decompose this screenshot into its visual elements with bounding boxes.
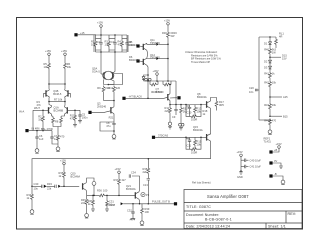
wire drop right to SOA — [114, 52, 116, 72]
power V3 +15V — [45, 49, 51, 62]
svg-text:R43: R43 — [264, 103, 269, 107]
node +15 stub pad — [74, 33, 77, 36]
svg-text:10k: 10k — [197, 110, 202, 114]
resistor R19 — [70, 110, 77, 127]
power V9 +15V decoupling — [237, 150, 243, 171]
svg-text:10k: 10k — [91, 43, 96, 47]
svg-text:0R5: 0R5 — [219, 103, 224, 107]
svg-text:R41: R41 — [264, 72, 269, 76]
junction — [118, 195, 120, 197]
ground — [91, 209, 95, 211]
svg-text:2N5246: 2N5246 — [97, 105, 107, 109]
trimmer P2 — [179, 123, 184, 130]
power V6 +15V — [60, 158, 66, 171]
svg-text:4k7: 4k7 — [122, 178, 127, 182]
ground — [112, 133, 116, 139]
svg-text:TITLE: G087C: TITLE: G087C — [186, 205, 211, 209]
svg-text:REV:: REV: — [288, 212, 297, 216]
resistor R11 — [165, 105, 172, 123]
transistor Q7 BD139 — [156, 84, 171, 105]
svg-text:C10: C10 — [187, 111, 192, 115]
resistor R46 — [88, 195, 95, 209]
transistor Q1B cascode — [44, 84, 50, 102]
ground — [237, 172, 243, 179]
transistor Q1 BC546 — [33, 102, 63, 117]
junction — [92, 195, 94, 197]
junction — [113, 100, 115, 102]
svg-text:IN 4R6: IN 4R6 — [32, 126, 41, 130]
svg-text:C2: C2 — [97, 40, 101, 44]
resistor R2B 1M — [38, 110, 44, 132]
border frame — [17, 18, 303, 230]
wire stub — [270, 115, 282, 117]
ground — [35, 147, 39, 153]
svg-text:R7 10k: R7 10k — [54, 98, 63, 102]
diode D2 — [264, 57, 272, 64]
resistor R5 — [44, 62, 51, 84]
junction — [106, 195, 108, 197]
node T3 label — [274, 172, 277, 176]
svg-text:C41 10uF: C41 10uF — [250, 165, 262, 169]
svg-text:BD243A: BD243A — [129, 58, 139, 62]
svg-text:470: 470 — [272, 119, 277, 123]
svg-text:D1: D1 — [264, 42, 268, 46]
ground — [268, 128, 272, 134]
power V8 — [115, 167, 121, 178]
svg-text:C32: C32 — [127, 208, 132, 212]
resistor R39 — [141, 204, 150, 220]
transistor Q3 2N5246 — [97, 101, 114, 122]
svg-text:Sansa Amplifier G087: Sansa Amplifier G087 — [207, 194, 249, 199]
svg-text:470: 470 — [60, 135, 65, 139]
resistor R44 — [264, 118, 276, 128]
resistor R6 — [64, 62, 72, 84]
capacitor C20 — [249, 86, 259, 94]
svg-text:10k: 10k — [272, 81, 277, 85]
pad PULSE_OUT — [174, 202, 177, 205]
node C15V label — [282, 53, 287, 60]
svg-text:22k: 22k — [47, 187, 52, 191]
pad input — [25, 129, 28, 132]
wire — [167, 44, 169, 58]
svg-text:220: 220 — [116, 86, 121, 90]
junction — [169, 104, 171, 106]
svg-text:+15V: +15V — [97, 21, 103, 25]
svg-text:100R: 100R — [191, 118, 197, 122]
wire Q20 emitter — [85, 190, 87, 195]
junction — [156, 80, 158, 82]
svg-text:100: 100 — [103, 189, 108, 193]
junction — [63, 186, 65, 188]
pad T3 — [269, 174, 272, 177]
node REF label — [264, 136, 272, 143]
svg-text:R10: R10 — [108, 86, 113, 90]
ground — [105, 209, 109, 211]
node PULSE_OUT label — [152, 200, 170, 204]
wire Q8 emitter to Q15 collector — [210, 108, 212, 134]
transistor Q8 BD243A — [197, 92, 211, 108]
svg-text:Ref (via Sheets): Ref (via Sheets) — [192, 181, 211, 185]
node OUT-L label — [283, 95, 288, 99]
capacitor C7 — [50, 131, 59, 144]
wire input rail — [29, 130, 52, 132]
svg-text:D2: D2 — [264, 60, 268, 64]
svg-text:370C/A5: 370C/A5 — [158, 133, 169, 137]
wire Q12 emitter down — [147, 65, 148, 98]
wire input riser — [32, 110, 34, 130]
svg-text:R36: R36 — [97, 189, 102, 193]
transistor Q15 BD243A — [193, 125, 211, 141]
junction — [167, 44, 169, 46]
resistor R12 — [180, 105, 189, 124]
transistor Q2B cascode — [65, 84, 71, 102]
svg-text:+15V: +15V — [61, 49, 67, 53]
svg-text:C13: C13 — [143, 183, 148, 187]
svg-text:10k: 10k — [105, 43, 110, 47]
svg-text:220: 220 — [81, 201, 86, 205]
ground — [140, 219, 144, 225]
power V4 +15V — [61, 49, 67, 62]
junction — [108, 84, 110, 86]
junction — [100, 51, 102, 53]
pad T1 — [269, 150, 272, 153]
junction — [114, 34, 116, 36]
wire stub — [270, 56, 281, 58]
junction — [93, 195, 95, 197]
svg-text:5W: 5W — [171, 34, 175, 38]
svg-text:-HT BLACK: -HT BLACK — [129, 94, 143, 98]
node -HT BLACK label — [129, 94, 143, 98]
node -HT BLACK pad — [122, 97, 125, 100]
svg-text:1W: 1W — [272, 51, 276, 55]
port arrow OUT1 — [156, 43, 168, 46]
power V5 +15V — [276, 142, 282, 149]
svg-text:SOA-5: SOA-5 — [92, 69, 100, 73]
wire join — [104, 100, 115, 102]
junction — [269, 115, 271, 117]
svg-text:+15: +15 — [80, 31, 85, 35]
node D20 label — [106, 203, 116, 207]
power V1 +15V — [97, 21, 103, 36]
power V2 +15V — [164, 19, 170, 32]
junction — [269, 96, 271, 98]
port arrow — [58, 185, 61, 188]
svg-text:R44: R44 — [264, 119, 269, 123]
svg-text:Times Marks NP: Times Marks NP — [191, 60, 210, 64]
svg-text:TIP3055: TIP3055 — [150, 56, 160, 60]
svg-text:TL431: TL431 — [264, 139, 272, 143]
svg-text:D3: D3 — [264, 66, 268, 70]
resistor R42 — [264, 80, 276, 97]
junction — [167, 58, 169, 60]
capacitor C30 — [32, 182, 43, 190]
svg-text:R8: R8 — [55, 120, 59, 124]
wire — [175, 81, 177, 105]
ground — [281, 179, 285, 185]
svg-text:BAL 470R: BAL 470R — [41, 127, 53, 131]
network Q8 base: capacitor C10 — [186, 105, 192, 115]
svg-text:220: 220 — [165, 109, 170, 113]
wire cascode top rail — [49, 83, 65, 85]
resistor R30 — [162, 31, 177, 44]
pad bias — [170, 96, 181, 99]
node IN-B label — [32, 126, 53, 130]
svg-text:BC546A: BC546A — [71, 175, 81, 179]
svg-text:47k: 47k — [70, 117, 75, 121]
svg-text:100: 100 — [145, 210, 150, 214]
svg-text:100n: 100n — [82, 115, 88, 119]
capacitor C2 — [97, 35, 103, 52]
wire VAS rail — [170, 104, 206, 106]
svg-text:+B: +B — [274, 148, 278, 152]
svg-text:C30: C30 — [34, 182, 39, 186]
junction — [100, 34, 102, 36]
wire ladder left — [258, 37, 260, 120]
port arrow — [121, 202, 124, 205]
resistor R16 — [186, 137, 201, 154]
resistor R3 — [105, 35, 111, 52]
junction — [185, 137, 187, 139]
wire output rail — [123, 203, 174, 205]
diode D7 — [142, 75, 148, 81]
junction — [64, 83, 66, 85]
wire — [167, 59, 169, 82]
ground — [56, 145, 60, 151]
junction — [64, 101, 66, 103]
svg-text:22k: 22k — [143, 170, 148, 174]
wire loop — [108, 74, 122, 85]
svg-text:R33: R33 — [47, 182, 52, 186]
resistor R41 — [264, 70, 275, 80]
wire NFB long — [32, 141, 211, 186]
node cascode label — [53, 89, 62, 96]
dual transistor Q5 SOA-5 — [92, 67, 115, 80]
junction — [139, 203, 141, 205]
diode D3 — [264, 64, 272, 70]
node 370C/A5 pad — [152, 136, 155, 139]
junction — [269, 56, 271, 58]
capacitor C6 — [35, 130, 44, 147]
junction — [114, 51, 116, 53]
svg-text:+15V: +15V — [45, 49, 51, 53]
svg-text:IN-A: IN-A — [19, 110, 24, 114]
ground — [279, 166, 283, 168]
wire bank frame — [94, 35, 128, 52]
svg-text:10n: 10n — [249, 90, 254, 94]
svg-text:10k: 10k — [197, 142, 202, 146]
wire Q15 base rail — [155, 136, 206, 138]
resistor R31 0R22 — [150, 81, 158, 86]
resistor R37 — [114, 178, 127, 195]
resistor R35 — [59, 171, 81, 186]
diode D1 — [264, 37, 272, 46]
svg-text:A15: A15 — [283, 95, 288, 99]
trimmer P3 — [141, 193, 150, 197]
wire emitter rail — [144, 80, 177, 82]
wire — [78, 34, 96, 36]
wire — [61, 185, 79, 187]
junction — [269, 36, 271, 38]
svg-text:BCM-5: BCM-5 — [53, 92, 62, 96]
resistor R7 label — [54, 98, 63, 102]
capacitor C32 — [127, 204, 135, 219]
resistor R10 — [108, 79, 120, 100]
svg-text:BC546B: BC546B — [54, 109, 64, 113]
svg-text:+36V: +36V — [153, 69, 159, 73]
capacitor C9 — [172, 105, 178, 120]
junction — [132, 203, 134, 205]
junction — [48, 101, 50, 103]
capacitor C5 — [78, 110, 88, 123]
resistor R15 — [194, 138, 202, 147]
svg-text:C34: C34 — [131, 170, 136, 174]
resistor R3 label — [37, 100, 42, 107]
svg-text:+15V: +15V — [237, 150, 243, 154]
node IN label — [19, 106, 40, 113]
capacitor C8 — [106, 121, 116, 128]
svg-text:R30: R30 — [162, 31, 167, 35]
node T1 label — [274, 148, 278, 152]
svg-text:10k: 10k — [44, 65, 49, 69]
trimmer P1 — [168, 122, 172, 129]
junction — [31, 186, 33, 188]
svg-text:4R: 4R — [279, 35, 282, 39]
junction — [113, 130, 115, 132]
transistor Q11 TIP3055 — [140, 38, 161, 50]
wire ladder left join — [259, 119, 270, 121]
port arrow OUT2 — [156, 57, 168, 60]
resistor R2 — [91, 35, 97, 52]
svg-text:+15V: +15V — [115, 167, 121, 171]
wire top rail — [96, 34, 128, 36]
transistor Q21 BC546A — [126, 184, 139, 199]
resistor R8 tail — [52, 116, 63, 134]
svg-text:47u: 47u — [106, 124, 111, 128]
transistor Q2 BC546 — [62, 102, 81, 117]
pad T2 — [269, 161, 272, 164]
fuse F1 — [145, 78, 151, 81]
svg-text:C20: C20 — [249, 86, 254, 90]
svg-text:-B: -B — [274, 172, 277, 176]
resistor RL1 — [275, 32, 285, 49]
svg-text:47k: 47k — [37, 103, 42, 107]
chassis ground — [130, 219, 135, 221]
svg-text:BD243A: BD243A — [197, 95, 207, 99]
port arrow — [44, 185, 47, 188]
pad D5 C1694 — [129, 40, 140, 48]
svg-text:C1694: C1694 — [129, 43, 137, 47]
svg-text:Document Number:: Document Number: — [186, 213, 220, 217]
resistor R18 label — [203, 109, 208, 116]
svg-text:BD139: BD139 — [156, 90, 164, 94]
svg-text:C11: C11 — [187, 143, 192, 147]
svg-text:10k: 10k — [67, 65, 72, 69]
svg-text:GND: GND — [237, 175, 243, 179]
wire Q11 emitter to Q12 collector — [146, 50, 149, 58]
capacitor C31 — [106, 195, 115, 209]
ground — [30, 208, 34, 214]
wire stub — [270, 96, 282, 98]
wire drop left to SOA — [100, 52, 102, 74]
svg-text:1uF: 1uF — [39, 137, 44, 141]
svg-text:15V: 15V — [282, 56, 287, 60]
svg-text:100R: 100R — [191, 150, 197, 154]
wire cascode emitter rail — [49, 101, 65, 103]
transistor Q20 BC546A — [83, 183, 87, 190]
svg-text:10k: 10k — [272, 103, 277, 107]
wire — [273, 176, 283, 179]
svg-text:Date: 2/04/2013 13:44:24: Date: 2/04/2013 13:44:24 — [186, 224, 230, 228]
junction — [147, 80, 149, 82]
resistor R14 — [186, 105, 201, 122]
pad D6 BD243A — [129, 55, 140, 63]
wire ladder top rail — [259, 36, 276, 38]
capacitor C41 — [241, 165, 261, 169]
svg-text:1M: 1M — [38, 117, 42, 121]
wire — [273, 148, 279, 152]
resistor R36 series — [97, 189, 108, 197]
svg-text:B-CB-G087-0-1: B-CB-G087-0-1 — [205, 218, 232, 222]
resistor R13 — [194, 105, 202, 114]
resistor R4 — [118, 35, 124, 52]
note text — [185, 50, 222, 184]
svg-text:10u: 10u — [34, 187, 39, 191]
power V7 +36V — [153, 69, 159, 81]
wire bottom rail — [96, 51, 128, 53]
resistor R38 divider from NFB — [143, 158, 151, 204]
svg-text:Sheet: 1/1: Sheet: 1/1 — [268, 224, 286, 228]
resistor R8B — [57, 134, 65, 145]
wire -HT rail — [126, 97, 168, 98]
node +15 label — [80, 31, 85, 35]
resistor R40 — [264, 46, 276, 58]
svg-text:C3: C3 — [111, 40, 115, 44]
network Q15 base: capacitor C11 — [186, 137, 192, 147]
wire Q21 emitter — [138, 199, 141, 204]
resistor R33 — [47, 182, 57, 190]
capacitor C3 — [111, 35, 117, 52]
junction — [185, 104, 187, 106]
capacitor C33 — [86, 178, 96, 195]
resistor R45 — [81, 195, 88, 212]
svg-text:C9: C9 — [172, 115, 176, 119]
node B15 label — [283, 114, 288, 118]
svg-text:+15V: +15V — [164, 19, 170, 23]
svg-text:R42: R42 — [264, 81, 269, 85]
junction — [175, 104, 177, 106]
junction — [240, 170, 242, 172]
junction — [147, 74, 149, 76]
junction — [48, 83, 50, 85]
wire loop — [100, 122, 114, 133]
wire — [273, 163, 281, 166]
svg-text:C40 10uF: C40 10uF — [250, 158, 262, 162]
svg-text:0V: 0V — [274, 159, 277, 163]
resistor R32 0R22 — [151, 81, 171, 94]
transistor Q12 TIP3055 — [140, 53, 161, 65]
resistor R43 — [264, 97, 276, 116]
svg-text:PULSE_OUT B: PULSE_OUT B — [152, 200, 170, 204]
wire bottom rail — [87, 194, 136, 196]
svg-text:R40: R40 — [264, 48, 269, 52]
svg-text:R9: R9 — [97, 86, 101, 90]
junction — [200, 104, 202, 106]
title block — [184, 190, 302, 229]
junction — [180, 104, 182, 106]
junction — [167, 80, 169, 82]
junction — [147, 98, 149, 100]
svg-text:P3: P3 — [146, 193, 150, 197]
